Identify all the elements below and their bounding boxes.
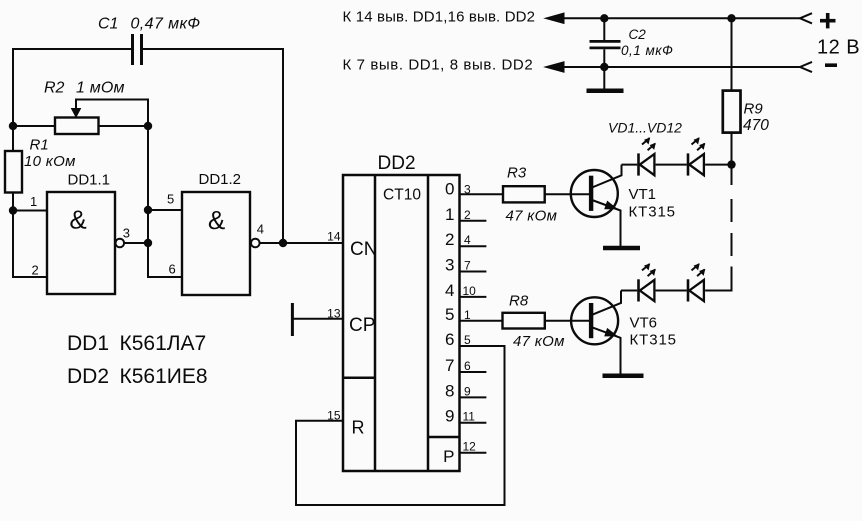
resistor R2 (potentiometer) [55, 100, 148, 135]
svg-text:DD2: DD2 [67, 365, 109, 388]
svg-text:9: 9 [445, 407, 454, 426]
svg-text:КТ315: КТ315 [629, 204, 676, 221]
node pin1 [9, 206, 17, 214]
wire DD1.1 inputs [13, 211, 47, 278]
wire top oscillator loop [13, 49, 283, 243]
node c2 top [600, 14, 608, 22]
svg-text:CN: CN [350, 239, 377, 260]
capacitor C1 [133, 34, 142, 65]
svg-text:1: 1 [464, 308, 471, 322]
svg-text:5: 5 [464, 333, 471, 347]
wire LED row1 [622, 164, 732, 166]
wire DD2 output 2 stub [460, 245, 487, 247]
LED VD2 [688, 138, 705, 175]
svg-text:9: 9 [464, 384, 471, 398]
svg-text:К561ЛА7: К561ЛА7 [120, 332, 207, 355]
wire row1 base [460, 193, 590, 195]
svg-text:47 кОм: 47 кОм [513, 333, 565, 350]
svg-text:3: 3 [445, 256, 454, 275]
svg-text:7: 7 [464, 259, 471, 273]
wire R2 row [13, 125, 148, 127]
node pot-right [144, 122, 152, 130]
power rail minus [545, 62, 812, 72]
wire vertical feedback x148 [148, 126, 182, 277]
svg-text:12 В: 12 В [817, 37, 860, 59]
svg-text:3: 3 [123, 226, 130, 241]
resistor R1 [5, 151, 22, 193]
svg-text:1: 1 [445, 205, 454, 224]
node c2 bottom [600, 63, 608, 71]
wire row2 base [460, 320, 590, 322]
node pot-left [9, 122, 17, 130]
ground VT1 emitter [603, 246, 640, 251]
svg-text:4: 4 [464, 233, 471, 247]
svg-text:10 кОм: 10 кОм [24, 153, 76, 170]
svg-text:VD1...VD12: VD1...VD12 [608, 120, 682, 136]
svg-text:DD1: DD1 [67, 332, 109, 355]
transistor VT6 [571, 291, 621, 374]
svg-text:12: 12 [463, 440, 477, 454]
svg-text:CP: CP [349, 315, 375, 336]
resistor R9 [723, 18, 741, 164]
svg-text:10: 10 [463, 284, 477, 298]
svg-text:2: 2 [32, 263, 39, 278]
svg-text:DD1.1: DD1.1 [68, 171, 111, 188]
svg-text:C1: C1 [98, 16, 118, 33]
svg-text:R3: R3 [507, 165, 527, 182]
resistor R8 [503, 313, 545, 329]
svg-text:2: 2 [445, 230, 454, 249]
svg-text:4: 4 [445, 281, 454, 300]
svg-text:К 14 выв. DD1,16 выв. DD2: К 14 выв. DD1,16 выв. DD2 [343, 8, 536, 25]
svg-text:&: & [69, 205, 86, 235]
svg-text:P: P [443, 447, 454, 466]
transistor VT1 [571, 165, 622, 247]
svg-text:2: 2 [464, 208, 471, 222]
node LED junction [727, 160, 735, 168]
counter DD2 box [343, 175, 460, 471]
svg-text:14: 14 [327, 229, 341, 243]
wire CP input with T-bar [292, 303, 343, 336]
node r9 top [727, 14, 735, 22]
wire DD2 output P stub [460, 452, 487, 454]
svg-text:R1: R1 [30, 137, 49, 154]
resistor R3 [503, 186, 545, 202]
svg-text:7: 7 [445, 356, 454, 375]
svg-text:К561ИЕ8: К561ИЕ8 [120, 365, 208, 388]
gate DD1.1 [47, 192, 124, 294]
svg-text:470: 470 [743, 117, 769, 134]
svg-text:CT10: CT10 [383, 186, 421, 203]
wire DD2 output 3 stub [460, 271, 487, 273]
svg-text:1: 1 [30, 194, 37, 209]
svg-text:6: 6 [445, 330, 454, 349]
wire DD2 output 1 stub [460, 220, 487, 222]
ground C2 [587, 67, 624, 91]
ground VT6 emitter [603, 373, 644, 378]
svg-text:VT6: VT6 [630, 314, 658, 331]
svg-text:13: 13 [327, 306, 341, 320]
svg-text:0,1 мкФ: 0,1 мкФ [621, 43, 673, 58]
gate DD1.2 [182, 192, 260, 295]
svg-text:15: 15 [327, 408, 341, 422]
wire DD1.2 output [260, 242, 343, 244]
power rail plus [545, 13, 812, 24]
terminal minus [825, 63, 837, 67]
node n4 [279, 239, 287, 247]
svg-text:КТ315: КТ315 [630, 332, 677, 349]
svg-text:R9: R9 [744, 101, 764, 118]
svg-text:5: 5 [445, 305, 454, 324]
wire DD2 output 8 stub [460, 396, 487, 398]
svg-text:К 7 выв. DD1, 8 выв. DD2: К 7 выв. DD1, 8 выв. DD2 [343, 57, 534, 74]
svg-text:&: & [208, 205, 225, 235]
svg-text:C2: C2 [629, 27, 647, 42]
svg-text:R2: R2 [44, 80, 65, 97]
wire DD2 output 7 stub [460, 371, 487, 373]
svg-text:0: 0 [445, 179, 454, 198]
svg-text:5: 5 [167, 192, 174, 207]
svg-text:3: 3 [464, 182, 471, 196]
wire dashed chain [731, 165, 733, 256]
LED VD12 [688, 264, 705, 301]
svg-text:4: 4 [257, 221, 264, 236]
LED VD1 [639, 138, 656, 175]
terminal plus [820, 13, 836, 28]
capacitor C2 [590, 18, 621, 67]
svg-text:DD2: DD2 [378, 153, 416, 174]
wire R1 leads [12, 126, 14, 211]
svg-text:8: 8 [445, 381, 454, 400]
svg-text:11: 11 [463, 410, 476, 424]
node n5 [144, 206, 152, 214]
wire DD1.1 output [124, 242, 148, 244]
wire LED row2 [621, 267, 732, 291]
LED VD11 [639, 264, 656, 301]
wire DD2 output 4 stub [460, 296, 487, 298]
svg-text:6: 6 [464, 359, 471, 373]
wire pin5 [148, 209, 182, 211]
svg-text:R: R [352, 418, 365, 438]
svg-text:6: 6 [169, 261, 176, 276]
node n3 [144, 239, 152, 247]
svg-text:47 кОм: 47 кОм [506, 208, 558, 225]
svg-text:0,47 мкФ: 0,47 мкФ [131, 16, 201, 33]
svg-text:DD1.2: DD1.2 [199, 171, 242, 188]
svg-text:R8: R8 [509, 292, 529, 309]
svg-text:VT1: VT1 [629, 186, 657, 203]
wire output6 feedback to R [296, 346, 505, 505]
wire DD2 output 9 stub [460, 422, 487, 424]
svg-text:1 мОм: 1 мОм [76, 80, 125, 97]
